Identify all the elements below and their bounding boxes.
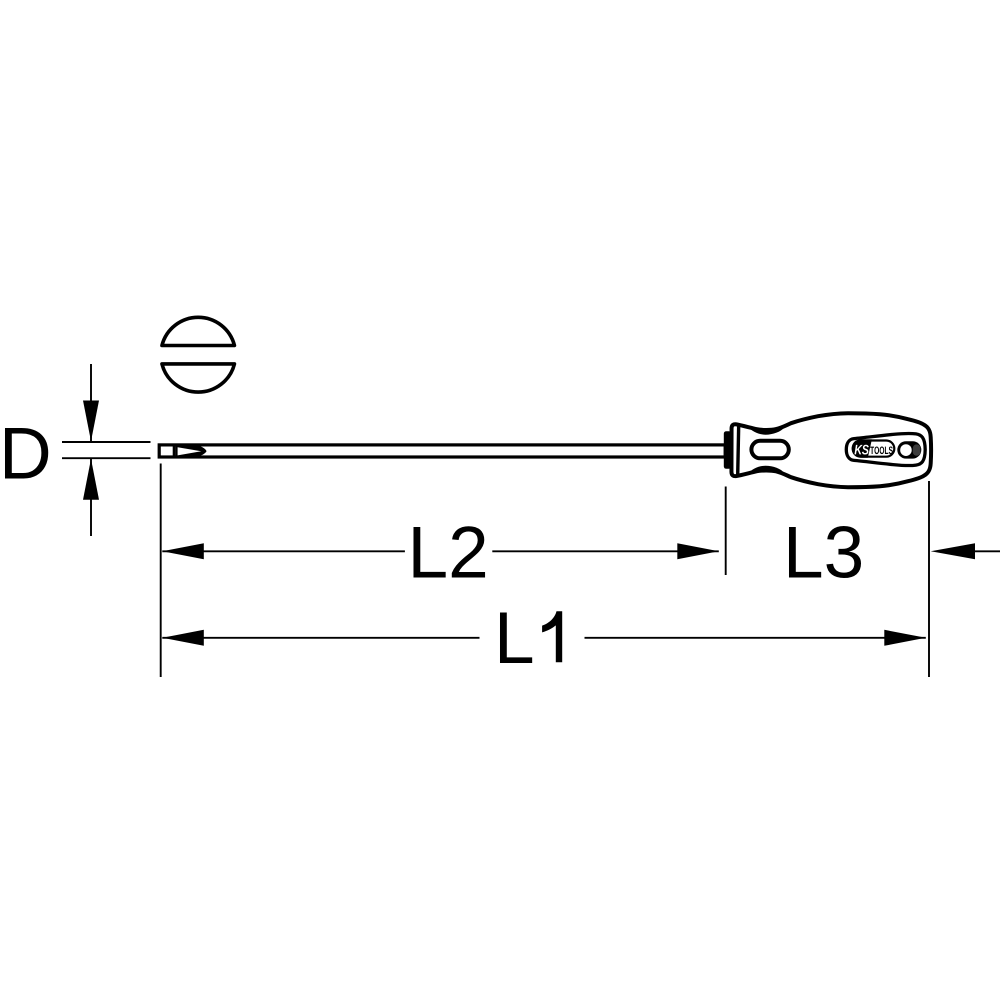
- L2 left arrowhead: [162, 543, 204, 559]
- KS TOOLS logo stadium: [853, 441, 895, 457]
- tip cross-section circle bottom arc with slot chord: [162, 364, 235, 392]
- hang hole white pill: [900, 444, 912, 456]
- D extension line bottom: [62, 457, 151, 459]
- D upper arrow line: [90, 364, 92, 441]
- svg-text:L2: L2: [408, 513, 489, 594]
- L2 dimension line right segment: [492, 550, 719, 552]
- L2/L3 middle extension line: [725, 487, 727, 576]
- blade flat (white wedge): [178, 447, 202, 455]
- top grip crescent: [748, 426, 785, 434]
- svg-text:L3: L3: [783, 513, 864, 594]
- blade grind nose (black): [176, 444, 207, 457]
- L3 right arrowhead: [931, 543, 975, 559]
- L1 right arrowhead: [884, 630, 926, 646]
- L2 dimension line left segment: [162, 550, 405, 552]
- ferrule ring line: [738, 425, 739, 475]
- hang hole gray pill: [913, 444, 921, 455]
- hang hole black capsule: [897, 441, 921, 458]
- L1 left arrowhead: [162, 630, 204, 646]
- svg-text:L: L: [494, 598, 535, 679]
- L1 dimension line left segment: [162, 637, 479, 639]
- tip cross-section circle top arc with slot chord: [162, 317, 235, 345]
- L2 right arrowhead: [677, 543, 719, 559]
- L3 right arrow tail: [972, 550, 1000, 552]
- shaft outline: [159, 445, 725, 457]
- bottom grip crescent: [748, 466, 785, 474]
- svg-text:D: D: [0, 414, 52, 495]
- L1/L3 right extension line: [928, 481, 930, 677]
- TOOLS text: [870, 446, 893, 454]
- recess stadium: [846, 433, 925, 465]
- ferrule black collar: [724, 431, 731, 469]
- D lower arrowhead: [83, 459, 99, 500]
- handle outline: [731, 413, 931, 487]
- L1 dimension line right segment: [585, 637, 926, 639]
- D upper arrowhead: [83, 401, 99, 442]
- grip capsule hole: [751, 441, 788, 459]
- KS text: [854, 445, 868, 455]
- blade tip separation line: [173, 445, 176, 457]
- D lower arrow line: [90, 459, 92, 536]
- KS logo black lobe: [852, 439, 872, 457]
- D extension line top: [62, 441, 151, 443]
- L2 left extension line (shared with L1): [160, 464, 162, 678]
